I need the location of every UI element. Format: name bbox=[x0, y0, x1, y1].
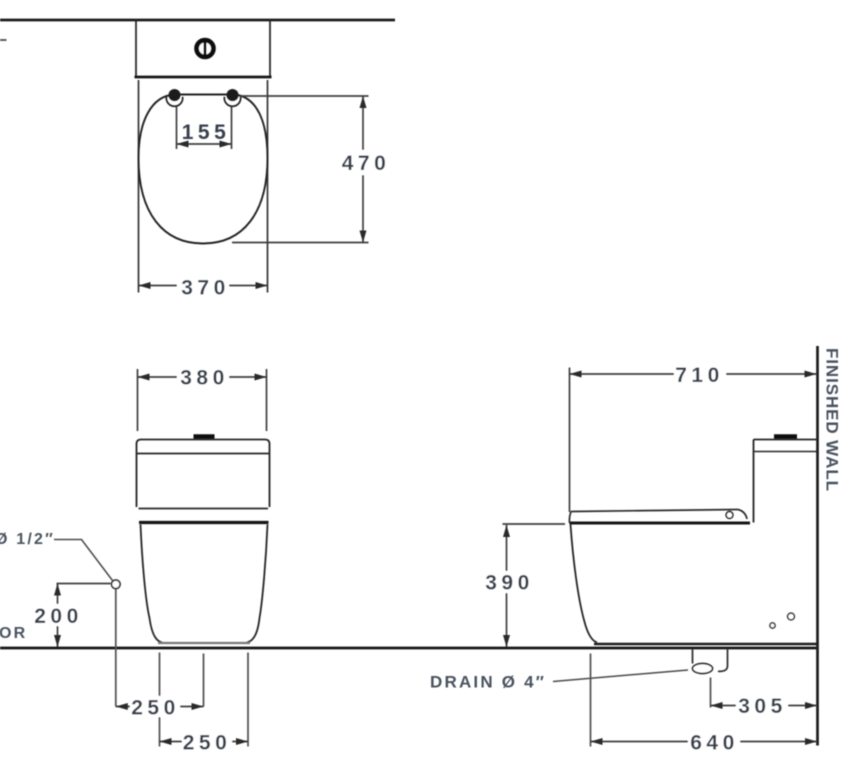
dimension 710 (overall depth, side view) bbox=[570, 364, 817, 512]
bowl base line (side view) bbox=[594, 643, 817, 645]
label water supply dia 1/2 inch bbox=[0, 531, 55, 548]
dimension 200 (supply height, front view) bbox=[32, 584, 111, 648]
wall line (plan view, top) bbox=[0, 19, 395, 22]
seat slab (front view) bbox=[139, 509, 269, 523]
dimension 250 (supply offset, front view) bbox=[116, 696, 204, 720]
dimension 305 (drain offset from wall) bbox=[711, 695, 818, 718]
svg-text:640: 640 bbox=[690, 732, 739, 755]
tank lid joint line (front view) bbox=[137, 453, 270, 455]
svg-text:155: 155 bbox=[182, 121, 231, 144]
tank outline (front view) bbox=[137, 440, 270, 508]
dimension 380 (tank width, front view) bbox=[138, 366, 267, 431]
flush button tab (side view) bbox=[774, 434, 797, 439]
svg-text:370: 370 bbox=[181, 277, 230, 300]
dimension 470 (seat length, plan) bbox=[232, 96, 390, 243]
svg-text:OR: OR bbox=[0, 625, 27, 642]
water supply point circle bbox=[112, 580, 121, 589]
svg-text:380: 380 bbox=[180, 367, 229, 390]
left edge tick bbox=[0, 39, 7, 41]
svg-text:390: 390 bbox=[485, 572, 534, 595]
label DRAIN dia 4 inch bbox=[430, 673, 546, 692]
svg-text:Ø 1/2″: Ø 1/2″ bbox=[0, 531, 55, 548]
drain centre extension line bbox=[710, 678, 712, 708]
flush button tab (front view) bbox=[194, 434, 215, 439]
seat hinge left (plan view) bbox=[166, 89, 182, 106]
bowl pedestal right edge (front view) bbox=[247, 525, 268, 643]
floor line bbox=[0, 647, 819, 650]
extension line for 640 (side view) bbox=[590, 654, 592, 747]
svg-text:305: 305 bbox=[738, 695, 787, 718]
bolt cap circles (side view) bbox=[770, 613, 794, 628]
finished wall line (side view) bbox=[816, 346, 819, 746]
svg-text:DRAIN Ø 4″: DRAIN Ø 4″ bbox=[430, 673, 546, 692]
seat hinge circle (side view) bbox=[726, 512, 733, 519]
label FINISHED WALL (rotated) bbox=[823, 348, 842, 492]
dimension 390 (seat height, side view) bbox=[481, 524, 565, 647]
seat hinge right (plan view) bbox=[224, 89, 240, 106]
bowl pedestal left edge (front view) bbox=[141, 525, 163, 643]
svg-text:250: 250 bbox=[131, 697, 180, 720]
bowl front curve (side view) bbox=[571, 525, 598, 643]
drain leader line bbox=[553, 670, 688, 682]
seat profile (side view) bbox=[569, 510, 750, 524]
dimension 250 (base width, front view) bbox=[160, 731, 249, 755]
dimension 155 (hinge bolt spread, plan) bbox=[177, 107, 232, 150]
svg-text:710: 710 bbox=[675, 364, 724, 387]
svg-text:FINISHED WALL: FINISHED WALL bbox=[823, 348, 842, 492]
extension lines below floor (front view) bbox=[160, 653, 249, 747]
svg-text:250: 250 bbox=[183, 732, 232, 755]
flush button (plan view) bbox=[197, 40, 214, 57]
drain outlet (side view) bbox=[693, 650, 728, 674]
label floor (cropped, shows OR) bbox=[0, 625, 27, 642]
seat bounding rails (plan view extension lines) bbox=[139, 80, 268, 293]
pedestal base shadow line (front view) bbox=[158, 642, 250, 644]
water supply leader line bbox=[54, 540, 113, 581]
supply drop extension line bbox=[115, 589, 117, 707]
svg-text:200: 200 bbox=[34, 605, 83, 628]
dimension 370 (seat width, plan) bbox=[139, 276, 268, 300]
seat lid outline (plan view) bbox=[139, 95, 268, 244]
tank outline (side view) bbox=[754, 440, 818, 523]
dimension 640 (base depth, side view) bbox=[591, 731, 818, 755]
svg-text:470: 470 bbox=[342, 152, 391, 175]
cistern tank outline (plan view) bbox=[135, 20, 272, 77]
